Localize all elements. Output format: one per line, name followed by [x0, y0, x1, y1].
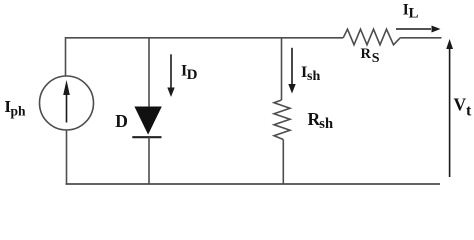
svg-text:S: S — [372, 51, 380, 66]
svg-text:ph: ph — [11, 103, 27, 118]
svg-text:D: D — [187, 67, 198, 83]
svg-text:V: V — [454, 95, 467, 115]
svg-text:R: R — [361, 46, 372, 62]
svg-text:t: t — [466, 103, 472, 120]
svg-text:L: L — [409, 6, 419, 22]
svg-text:sh: sh — [319, 116, 333, 132]
svg-text:D: D — [115, 111, 128, 131]
svg-text:sh: sh — [307, 69, 320, 84]
